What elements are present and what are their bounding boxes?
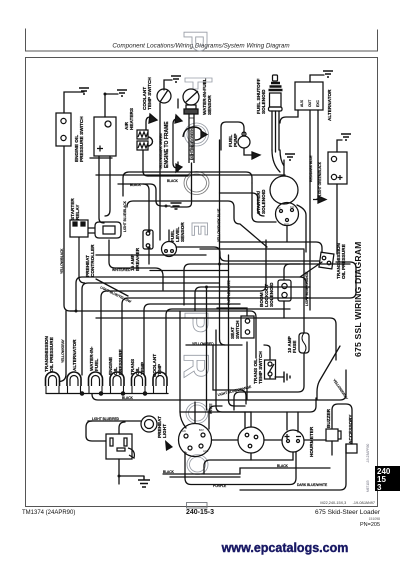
svg-text:IGN: IGN <box>181 429 186 433</box>
engine to frame arrow top <box>175 115 182 123</box>
svg-text:OUT: OUT <box>308 100 312 107</box>
svg-text:ALTERNATOR: ALTERNATOR <box>327 89 332 121</box>
svg-text:LIGHT BLUE/ORANGE: LIGHT BLUE/ORANGE <box>305 271 309 306</box>
svg-text:ST: ST <box>184 451 188 455</box>
relay arm arrow <box>165 440 173 451</box>
svg-text:YELLOW/DARK BLUE: YELLOW/DARK BLUE <box>217 208 221 242</box>
ground G9 mid <box>171 203 181 209</box>
svg-text:OIL PRESSURE: OIL PRESSURE <box>49 337 54 372</box>
svg-text:IGN: IGN <box>290 206 295 209</box>
svg-text:240-15-3: 240-15-3 <box>186 509 214 516</box>
svg-text:ENGINE TO FRAME: ENGINE TO FRAME <box>164 121 170 168</box>
svg-text:YELLOW/DARK GREEN: YELLOW/DARK GREEN <box>159 133 163 170</box>
wire starter right curve <box>297 205 306 252</box>
svg-text:TEMP: TEMP <box>140 362 145 375</box>
ground G6 regulator <box>341 134 351 140</box>
10 amp fuse <box>299 333 309 353</box>
ground G5 alternator <box>323 71 333 77</box>
svg-text:RELAY: RELAY <box>75 204 80 220</box>
svg-text:HOURMETER: HOURMETER <box>309 426 314 457</box>
svg-text:PN=205: PN=205 <box>360 522 380 528</box>
wire switch2 to hourmeter <box>264 439 282 441</box>
key switch circle <box>179 424 212 457</box>
wire band h2 <box>82 283 219 375</box>
svg-text:RED/DARK BLUE: RED/DARK BLUE <box>309 155 313 182</box>
wire switch2 top feed2 <box>244 412 246 428</box>
wire lamp bus 1 <box>46 393 168 395</box>
svg-text:LIGHT BLUE/BLACK: LIGHT BLUE/BLACK <box>123 200 127 232</box>
wire fuel pump bottom arrow lead <box>244 148 252 155</box>
indicator lamp arch 2 <box>67 372 81 386</box>
svg-text:FUEL: FUEL <box>94 359 99 371</box>
svg-text:FUSE: FUSE <box>292 340 297 353</box>
svg-text:E: E <box>187 222 212 237</box>
wire center to starter curve <box>220 193 265 216</box>
water-in-fuel sensor body <box>183 89 199 105</box>
wire light blue/orange vertical <box>303 250 305 333</box>
accessory connector <box>346 444 357 453</box>
svg-text:TM1374 (24APR90): TM1374 (24APR90) <box>22 510 75 516</box>
buzzer box <box>326 429 338 441</box>
wire seat switch top <box>217 308 247 316</box>
junction dots lamp bus <box>80 392 83 395</box>
wire alternator left lead <box>280 110 298 123</box>
boom lockout solenoid <box>278 280 291 301</box>
wire regulator top ground G6 <box>337 140 342 152</box>
labels alternator pins <box>300 99 320 107</box>
air heater coil 2 <box>137 141 148 150</box>
starter solenoid circle <box>270 176 298 204</box>
ground G1 <box>79 88 89 94</box>
preheat light lamp <box>141 416 157 432</box>
wire band h270 left <box>150 270 228 272</box>
wire preheat light feed <box>88 420 141 422</box>
air heater arrow <box>149 114 157 123</box>
wire lamp1 feed <box>60 311 67 382</box>
wire air heater top lead <box>146 117 150 130</box>
15 amp breaker <box>143 230 153 249</box>
wire alternator top ground <box>310 75 324 82</box>
lamp legs to bus <box>46 386 167 393</box>
engine oil pressure switch S1 <box>56 113 71 146</box>
wire hourmeter top feeds <box>287 412 298 432</box>
svg-text:LIGHT BLUE/RED: LIGHT BLUE/RED <box>92 417 120 421</box>
svg-text:P: P <box>178 311 215 333</box>
svg-text:PURPLE: PURPLE <box>213 484 227 488</box>
wire regulator bottom down <box>336 184 338 254</box>
wire band h270 <box>176 247 320 261</box>
svg-text:151098: 151098 <box>369 517 380 521</box>
svg-text:ACCESSORY: ACCESSORY <box>348 414 353 444</box>
wire lamp bus black <box>92 370 346 400</box>
svg-text:TEMP SWITCH: TEMP SWITCH <box>258 351 263 384</box>
svg-text:NO: NO <box>277 207 281 210</box>
wire key switch feeds <box>180 311 222 429</box>
svg-text:675 SSL WIRING DIAGRAM: 675 SSL WIRING DIAGRAM <box>353 242 363 358</box>
wire dark blue/white bottom <box>240 444 346 490</box>
svg-text:EXC: EXC <box>316 99 320 107</box>
wire band h242 <box>220 242 323 252</box>
engine to frame arrow bottom <box>176 164 182 172</box>
right sidebar <box>353 242 400 493</box>
svg-text:BLACK: BLACK <box>122 396 134 400</box>
trans oil temp switch <box>265 360 276 379</box>
ground G8 trans temp sw <box>284 372 290 383</box>
junction dot battery ground <box>104 93 107 96</box>
junction dot relay ground <box>118 475 121 478</box>
svg-text:P: P <box>177 30 214 52</box>
wire relay bottom down <box>79 237 85 283</box>
engine to frame bracket <box>173 119 177 168</box>
wire band h6 <box>166 309 290 375</box>
wire boom solenoid bottom <box>283 301 285 318</box>
wire solenoid triple 1 <box>271 111 273 150</box>
wire switch2 bottom stub <box>250 453 252 460</box>
coolant temp switch <box>157 89 171 103</box>
junction dot band left <box>75 310 78 313</box>
svg-text:R: R <box>176 353 215 378</box>
switch2 circle <box>238 427 264 453</box>
wire switch2 feeds <box>216 330 251 427</box>
svg-text:WHITE/RED: WHITE/RED <box>112 268 131 272</box>
wire h390 center <box>213 390 246 404</box>
wire battery right down <box>105 156 110 216</box>
wire yellow/gray diagonal <box>317 346 340 400</box>
junction dot breaker <box>147 229 150 232</box>
wire buzzer bottom stub <box>331 441 333 455</box>
wire purple bottom <box>185 452 296 485</box>
indicator lamp arch 1 <box>46 372 60 386</box>
svg-text:SOLENOID: SOLENOID <box>261 89 266 114</box>
wire trans temp switch top <box>264 345 270 360</box>
air heater coil 1 <box>137 130 148 139</box>
wire h 172 <box>123 172 252 196</box>
junction dot black bus <box>218 263 221 266</box>
fuel pump P1 <box>238 136 250 148</box>
wire band h8 <box>96 318 336 360</box>
junction dot ground mid <box>165 205 168 208</box>
svg-text:-19-23APR90: -19-23APR90 <box>366 443 370 463</box>
wire relay top to light <box>119 422 125 434</box>
ground G7 relay bottom <box>138 476 150 487</box>
svg-text:CONTROLLER: CONTROLLER <box>90 244 95 277</box>
starter relay box <box>70 220 88 237</box>
watermark bar <box>185 78 212 89</box>
preheat relay box <box>106 434 132 459</box>
air heater link arc <box>148 137 153 146</box>
svg-text:HEATERS: HEATERS <box>129 108 134 130</box>
svg-text:BLACK: BLACK <box>167 179 179 183</box>
wire hourmeter bottom <box>204 452 293 474</box>
wire boom solenoid top <box>284 264 300 280</box>
wire h412 bottom <box>180 398 316 412</box>
wire battery bottom down <box>99 156 104 223</box>
watermark letter O4 <box>187 455 208 475</box>
wire fuse bottom light blue/orange <box>234 353 304 410</box>
svg-text:AUX: AUX <box>300 99 304 107</box>
battery B1 <box>94 117 116 156</box>
wire center col x213 <box>212 345 214 390</box>
alternator box <box>295 82 323 110</box>
wire light blue/yellow diagonal <box>96 279 128 296</box>
svg-text:BLACK: BLACK <box>130 183 142 187</box>
svg-text:SOLENOID: SOLENOID <box>269 282 274 307</box>
wire air heater bottom lead <box>143 150 148 176</box>
wire black top h <box>96 174 285 176</box>
preheat controller body <box>95 222 121 238</box>
diagram border box <box>26 58 378 507</box>
wire red/dark blue <box>309 110 311 310</box>
hourmeter <box>282 430 304 452</box>
wire between switches <box>212 439 238 441</box>
wire h158 stub <box>90 157 112 159</box>
wire fuel pump top loop <box>221 122 244 150</box>
wire hourmeter to buzzer <box>304 439 326 441</box>
seat switch box <box>241 316 254 338</box>
wire fuel sender stem <box>168 230 170 241</box>
wire starter left loop <box>252 183 276 222</box>
wire sensor column down <box>171 163 192 207</box>
svg-text:BREAKER: BREAKER <box>135 247 140 271</box>
wire color labels <box>60 128 349 488</box>
svg-text:BUZZER: BUZZER <box>326 408 331 428</box>
wire center col x206 <box>206 287 208 410</box>
indicator lamp arch 4 <box>110 372 124 386</box>
indicator lamp arch 5 <box>132 372 146 386</box>
ground G2 <box>117 90 127 96</box>
wire mid h176 <box>148 175 188 177</box>
wire center col x219 down <box>220 311 226 345</box>
svg-text:YELLOW/GRAY: YELLOW/GRAY <box>61 338 65 363</box>
svg-text:SENSOR: SENSOR <box>207 95 212 115</box>
wire ground G1 to oil pressure switch <box>64 92 84 113</box>
wire breaker bottom <box>148 250 150 264</box>
svg-text:M22,240-15X,3 -19-08JAN97: M22,240-15X,3 -19-08JAN97 <box>320 501 375 505</box>
wire relay loop left <box>86 421 106 441</box>
wire center long vertical yellow/dark blue <box>219 140 221 311</box>
svg-text:BLACK: BLACK <box>277 464 289 468</box>
svg-text:www.epcatalogs.com: www.epcatalogs.com <box>221 541 349 555</box>
svg-text:ALTERNATOR: ALTERNATOR <box>72 339 77 371</box>
svg-text:PUMP: PUMP <box>233 133 238 147</box>
wire band h3 <box>101 240 266 375</box>
svg-text:WHITE: WHITE <box>209 403 213 414</box>
wire solenoid triple 2 <box>275 111 277 152</box>
wire center col x228 down <box>229 318 246 406</box>
wire coolant temp switch stem yellow/dark green <box>159 103 161 240</box>
starter motor circle <box>276 203 299 226</box>
wire band h4 <box>122 262 356 375</box>
svg-text:PRESSURE: PRESSURE <box>118 349 123 375</box>
svg-text:SENSOR: SENSOR <box>180 222 185 242</box>
wire solenoid to starter <box>272 150 284 176</box>
svg-text:ACC: ACC <box>284 223 289 226</box>
wire band h287 <box>195 287 310 311</box>
wire h 193 <box>127 201 267 247</box>
wire band h255 <box>96 254 206 256</box>
watermark letters <box>176 30 215 508</box>
wire white/red diagonal <box>109 240 163 290</box>
footer <box>22 443 381 555</box>
hook arrow <box>201 131 207 138</box>
wire purple/white vertical <box>228 255 230 318</box>
svg-text:SWITCH: SWITCH <box>235 320 240 339</box>
svg-text:675 Skid-Steer Loader: 675 Skid-Steer Loader <box>315 509 381 516</box>
wire light green/black <box>317 110 318 199</box>
wire breaker top <box>143 184 149 230</box>
wire starter bottom down <box>286 226 288 242</box>
svg-text:LIGHT BLUE/GREEN: LIGHT BLUE/GREEN <box>190 128 194 160</box>
svg-text:BLACK: BLACK <box>163 470 175 474</box>
wire yellow/red bottom center <box>186 344 242 346</box>
svg-text:YELLOW/BLACK: YELLOW/BLACK <box>60 248 64 274</box>
svg-text:TEMP SWITCH: TEMP SWITCH <box>147 77 152 110</box>
watermark letter O1 <box>185 123 209 146</box>
frame arrow right <box>313 196 326 203</box>
indicator lamp arch 3 <box>89 372 103 386</box>
wire band h1 <box>76 277 306 311</box>
svg-text:3: 3 <box>377 483 382 492</box>
wire engine-frame arrows stem <box>177 99 179 171</box>
watermark letter O2 <box>184 172 209 195</box>
svg-text:PURPLE/WHITE: PURPLE/WHITE <box>227 279 231 305</box>
wire trans oil press switch lead <box>300 262 322 277</box>
wire black h2 to ground <box>118 184 170 206</box>
junction dot center <box>205 286 208 289</box>
fuel level sensor circle <box>162 242 177 257</box>
wire solenoid triple 3 <box>278 111 280 150</box>
wire relay bottom ground <box>119 459 144 484</box>
fuel pump arrow <box>252 152 260 159</box>
svg-text:OIL PRESSURE: OIL PRESSURE <box>341 244 346 279</box>
wire seat switch bottom <box>246 342 248 400</box>
wire h477 <box>170 476 240 478</box>
svg-text:YELLOW/RED: YELLOW/RED <box>192 342 214 346</box>
wire buzzer accessory vertical <box>332 404 352 444</box>
indicator lamp arch 6 <box>153 372 167 386</box>
wire band h5 <box>144 304 240 375</box>
header rule <box>26 29 378 52</box>
wire battery top to ground G2 <box>105 94 118 117</box>
voltage regulator box <box>328 152 347 184</box>
wire coolant switch ground G3 <box>164 80 172 90</box>
svg-text:DARK BLUE/WHITE: DARK BLUE/WHITE <box>297 483 328 487</box>
wire band h7 <box>70 311 256 358</box>
svg-text:LIGHT BLUE/YELLOW: LIGHT BLUE/YELLOW <box>100 285 133 304</box>
svg-text:ACC: ACC <box>203 449 209 453</box>
svg-text:LIGHT: LIGHT <box>162 424 167 438</box>
svg-text:TEMP: TEMP <box>157 364 162 377</box>
fuel shutoff solenoid <box>273 75 278 81</box>
svg-text:YELLOW/GRAY: YELLOW/GRAY <box>332 378 349 401</box>
water-in-fuel hose with label <box>189 114 194 163</box>
wire oil switch down left bus <box>64 146 76 311</box>
wire band h264 <box>184 264 350 305</box>
transmission oil pressure switch <box>319 252 334 269</box>
wire trans temp switch ground lead <box>270 377 284 378</box>
svg-text:LIGHT GREEN/BLACK: LIGHT GREEN/BLACK <box>318 161 322 196</box>
ground G4 fuel area <box>285 154 295 160</box>
hose clamp hook wire <box>183 127 202 140</box>
svg-text:BAT: BAT <box>199 428 204 432</box>
svg-text:SOLENOID: SOLENOID <box>261 189 266 214</box>
svg-text:M67103: M67103 <box>366 480 370 492</box>
watermark fragment bottom <box>187 503 208 509</box>
wire band h249 <box>200 248 304 250</box>
ground G3 <box>171 76 181 82</box>
black page tab <box>375 466 400 491</box>
svg-text:PRESSURE SWITCH: PRESSURE SWITCH <box>79 116 84 162</box>
wire black bottom right <box>163 468 330 474</box>
watermark letter O3 <box>186 403 208 424</box>
